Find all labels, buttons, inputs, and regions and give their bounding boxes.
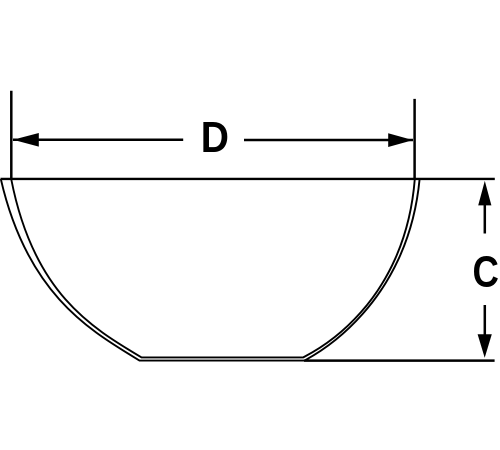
svg-text:C: C xyxy=(473,247,499,296)
svg-text:D: D xyxy=(201,113,229,162)
